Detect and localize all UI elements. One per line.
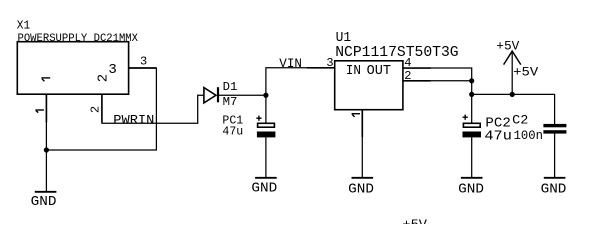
svg-text:GND: GND — [348, 182, 374, 197]
svg-text:47u: 47u — [484, 129, 512, 144]
svg-text:VIN: VIN — [279, 56, 302, 71]
svg-text:+5V: +5V — [496, 38, 519, 53]
svg-text:4: 4 — [404, 56, 411, 70]
svg-text:3: 3 — [140, 54, 147, 68]
svg-text:GND: GND — [458, 182, 484, 197]
svg-text:GND: GND — [541, 182, 567, 197]
svg-text:OUT: OUT — [367, 63, 391, 79]
svg-text:2: 2 — [95, 74, 111, 82]
svg-text:IN: IN — [346, 63, 361, 79]
svg-text:GND: GND — [251, 182, 277, 197]
svg-text:D1: D1 — [223, 80, 238, 94]
svg-text:+5V: +5V — [513, 64, 538, 79]
svg-text:C2: C2 — [512, 112, 528, 127]
svg-text:M7: M7 — [223, 95, 238, 109]
svg-text:2: 2 — [89, 106, 103, 113]
svg-text:3: 3 — [326, 56, 333, 70]
svg-text:PWRIN: PWRIN — [113, 112, 154, 127]
svg-text:POWERSUPPLY_DC21MMX: POWERSUPPLY_DC21MMX — [18, 33, 139, 45]
svg-text:GND: GND — [31, 195, 57, 210]
svg-text:2: 2 — [404, 69, 411, 83]
svg-text:NCP1117ST50T3G: NCP1117ST50T3G — [335, 45, 458, 61]
svg-text:X1: X1 — [17, 20, 30, 33]
svg-text:+5V: +5V — [402, 217, 427, 224]
svg-text:47u: 47u — [222, 125, 243, 139]
svg-text:U1: U1 — [336, 30, 352, 46]
svg-text:100n: 100n — [514, 128, 543, 143]
